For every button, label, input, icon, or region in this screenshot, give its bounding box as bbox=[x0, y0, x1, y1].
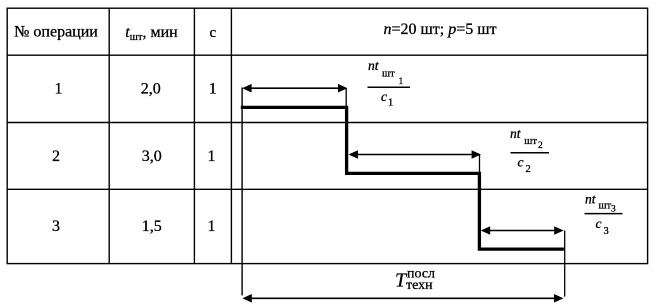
fraction label nt_шт3 / c3 bbox=[585, 191, 623, 237]
svg-text:2: 2 bbox=[52, 148, 60, 165]
extension line end of bar 1 bbox=[345, 88, 347, 106]
svg-text:2,0: 2,0 bbox=[141, 81, 161, 98]
svg-text:3: 3 bbox=[604, 226, 609, 237]
svg-text:3,0: 3,0 bbox=[142, 148, 162, 165]
fraction label nt_шт2 / c2 bbox=[510, 126, 549, 175]
svg-text:c: c bbox=[518, 154, 524, 169]
column line after col 3 bbox=[230, 8, 232, 263]
svg-text:n=20 шт; p=5 шт: n=20 шт; p=5 шт bbox=[383, 21, 496, 38]
label T_техн^посл bbox=[395, 267, 435, 293]
dimension arrow 1 bbox=[242, 84, 347, 93]
chart baseline (vertical datum line) bbox=[241, 87, 243, 295]
stepped thick bars: operation 1 -> 2 -> 3 bbox=[241, 107, 564, 249]
extension line end of bar 3 bbox=[564, 231, 566, 297]
svg-text:1: 1 bbox=[399, 77, 404, 87]
bottom total-time dimension arrow bbox=[242, 294, 563, 303]
dimension arrow 3 bbox=[481, 226, 564, 235]
svg-text:№ операции: № операции bbox=[14, 24, 98, 41]
svg-text:шт: шт bbox=[382, 69, 395, 80]
svg-text:3: 3 bbox=[52, 218, 60, 235]
fraction label nt_шт1 / c1 bbox=[368, 58, 411, 109]
svg-text:техн: техн bbox=[406, 278, 433, 293]
svg-text:1: 1 bbox=[388, 98, 393, 109]
svg-text:1: 1 bbox=[208, 218, 216, 235]
svg-text:c: c bbox=[596, 216, 602, 231]
svg-text:1,5: 1,5 bbox=[142, 218, 162, 235]
column line after col 1 bbox=[108, 8, 110, 263]
svg-text:nt: nt bbox=[368, 58, 380, 73]
svg-text:1: 1 bbox=[55, 81, 63, 98]
svg-text:2: 2 bbox=[538, 141, 543, 151]
extension line end of bar 2 bbox=[479, 155, 481, 173]
row line under header bbox=[7, 54, 647, 56]
svg-text:1: 1 bbox=[208, 148, 216, 165]
svg-text:шт: шт bbox=[599, 200, 612, 211]
svg-text:1: 1 bbox=[209, 81, 217, 98]
svg-text:3: 3 bbox=[611, 204, 616, 214]
svg-text:c: c bbox=[381, 89, 387, 104]
column line after col 2 bbox=[193, 8, 195, 263]
svg-text:nt: nt bbox=[510, 126, 522, 141]
row line under row 1 bbox=[7, 122, 647, 124]
svg-text:2: 2 bbox=[526, 164, 531, 175]
dimension arrow 2 bbox=[349, 150, 482, 159]
svg-text:шт: шт bbox=[524, 136, 537, 147]
svg-text:с: с bbox=[209, 25, 216, 41]
svg-text:nt: nt bbox=[585, 191, 597, 206]
row line under row 2 bbox=[7, 188, 647, 190]
